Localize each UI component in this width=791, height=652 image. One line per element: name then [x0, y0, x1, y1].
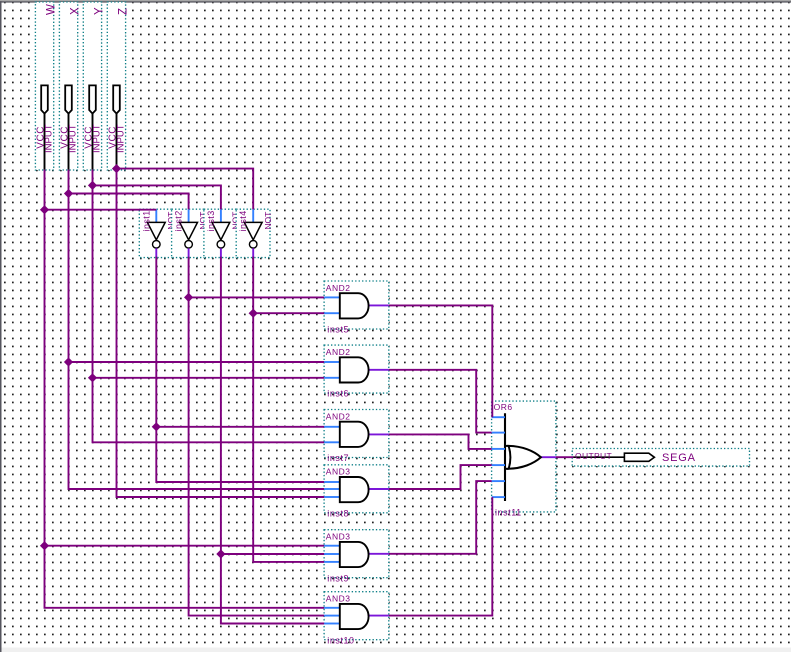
NOT inst2 output stub — [188, 248, 190, 257]
wire W' column: NOT inst1 output down to AND inst8 input 1 — [156, 257, 324, 482]
inst9 input stub 1 — [324, 545, 340, 547]
junction Y / NOT inst3 feed — [88, 181, 97, 190]
NOT inst1 triangle — [147, 222, 165, 239]
wire OR6 output to output pin SEGA — [556, 456, 574, 458]
junction Z / NOT inst4 feed — [112, 164, 121, 173]
inst9 body — [340, 542, 369, 567]
inst5 body — [340, 293, 369, 318]
wire AND inst6 output to OR6 input 2 — [389, 370, 492, 433]
inst8 input stub 2 — [324, 488, 340, 490]
svg-text:INPUT: INPUT — [67, 124, 78, 153]
junction Z' / AND inst5 in2 — [249, 309, 258, 318]
wire Z column: pin Z down to AND inst8 input 3 — [117, 169, 325, 497]
OR6 input bar — [504, 413, 506, 501]
junction X / NOT inst2 feed — [64, 189, 73, 198]
output pin SEGA (symbol cell) — [572, 449, 749, 467]
svg-text:AND3: AND3 — [326, 594, 351, 604]
wire W column: pin W down to AND inst10 input 1 — [45, 170, 325, 608]
svg-text:inst9: inst9 — [327, 573, 349, 583]
svg-text:AND3: AND3 — [326, 532, 351, 542]
NOT gate inst2 (inst2) — [172, 209, 209, 257]
wire W to NOT inst1 input — [45, 209, 157, 211]
inst10 input stub 1 — [324, 607, 340, 609]
junction Y / AND inst6 in2 — [88, 373, 97, 382]
inst6 output stub — [368, 369, 389, 371]
wire X' column: NOT inst2 output down to AND inst10 input 2 — [189, 257, 325, 616]
wire AND inst5 output to OR6 input 1 — [389, 305, 493, 417]
OR6 input stub 3 — [492, 448, 505, 450]
NOT inst2 triangle — [180, 222, 198, 239]
input pin X (symbol cell) — [59, 2, 77, 170]
output pin arrow symbol — [624, 453, 654, 461]
svg-text:INPUT: INPUT — [115, 124, 126, 153]
NOT inst3 triangle — [212, 222, 230, 239]
OR6 body top nub — [504, 445, 508, 447]
inst5 output stub — [368, 304, 389, 306]
NOT inst4 bubble — [249, 241, 257, 249]
svg-text:SEGA: SEGA — [662, 452, 696, 464]
wire AND inst8 output to OR6 input 4 — [389, 465, 492, 489]
inst8 input stub 3 — [324, 496, 340, 498]
NOT gate inst4 (inst4) — [236, 209, 273, 257]
NOT inst3 output stub — [220, 248, 222, 257]
inst6 input stub 2 — [324, 377, 340, 379]
window top border — [0, 0, 791, 1]
svg-text:AND2: AND2 — [326, 283, 351, 293]
junction W / AND inst9 in1 — [40, 541, 49, 550]
wire Z' branch to AND inst5 input 2 — [253, 312, 324, 314]
inst10 body — [340, 604, 369, 629]
svg-text:inst3: inst3 — [206, 210, 216, 231]
svg-text:inst7: inst7 — [327, 453, 349, 463]
wire W branch to AND inst9 input 1 — [45, 545, 325, 547]
NOT gate inst3 (inst3) — [204, 209, 241, 257]
input pin Z (symbol cell) — [107, 2, 125, 170]
inst7 body — [340, 422, 369, 447]
OR gate OR6 (inst11) — [492, 401, 556, 517]
svg-text:OR6: OR6 — [494, 402, 513, 412]
NOT inst4 output stub — [252, 248, 254, 257]
junction Y' / AND inst9 in2 — [216, 549, 225, 558]
wire X column: pin X down to AND inst8 input 2 — [69, 170, 325, 489]
AND gate AND2 (inst6) — [324, 345, 389, 399]
inst9 input stub 3 — [324, 561, 340, 563]
inst7 output stub — [368, 433, 389, 435]
NOT inst3 input stub — [220, 209, 222, 222]
svg-text:NOT: NOT — [263, 212, 273, 230]
inst8 output stub — [368, 488, 389, 490]
svg-text:AND2: AND2 — [326, 347, 351, 357]
svg-text:inst4: inst4 — [238, 210, 248, 231]
inst7 input stub 1 — [324, 426, 340, 428]
wire AND inst9 output to OR6 input 5 — [389, 481, 492, 554]
AND gate AND2 (inst7) — [324, 410, 389, 464]
inst10 input stub 2 — [324, 615, 340, 617]
junction W' / AND inst7 in1 — [152, 422, 161, 431]
svg-text:Z: Z — [117, 8, 129, 15]
junction X / AND inst6 in1 — [64, 357, 73, 366]
bottom scrollbar strip — [2, 648, 791, 652]
svg-text:INPUT: INPUT — [43, 124, 54, 153]
inst7 input stub 2 — [324, 441, 340, 443]
svg-text:inst2: inst2 — [174, 210, 184, 231]
inst5 input stub 1 — [324, 296, 340, 298]
OR6 body — [509, 446, 541, 469]
svg-text:INPUT: INPUT — [91, 124, 102, 153]
wire Y to NOT inst3 input — [93, 185, 221, 209]
wire Y' column: NOT inst3 output down to AND inst10 input 3 — [221, 257, 324, 624]
OR6 output stub — [541, 456, 556, 458]
NOT gate inst1 (inst1) — [139, 209, 176, 257]
svg-text:inst8: inst8 — [327, 508, 349, 518]
inst6 body — [340, 357, 369, 382]
window left border — [0, 1, 2, 652]
junction X' / AND inst5 in1 — [184, 293, 193, 302]
wire X to NOT inst2 input — [69, 194, 189, 210]
wire X branch to AND inst6 input 1 — [69, 361, 325, 363]
junction W / NOT inst1 feed — [40, 205, 49, 214]
svg-text:W: W — [45, 4, 57, 15]
NOT inst1 output stub — [155, 248, 157, 257]
inst8 body — [340, 477, 369, 502]
wire W' branch to AND inst7 input 1 — [156, 426, 324, 428]
NOT inst3 bubble — [217, 241, 225, 249]
svg-text:AND3: AND3 — [326, 467, 351, 477]
NOT inst1 input stub — [155, 209, 157, 222]
wire Z to NOT inst4 input — [117, 169, 254, 210]
svg-text:inst6: inst6 — [327, 389, 349, 399]
wire Y' branch to AND inst9 input 2 — [221, 553, 324, 555]
wire AND inst7 output to OR6 input 3 — [389, 434, 492, 449]
inst8 input stub 1 — [324, 481, 340, 483]
NOT inst2 bubble — [185, 241, 193, 249]
svg-text:inst11: inst11 — [495, 507, 522, 517]
wire AND inst10 output to OR6 input 6 — [389, 497, 493, 615]
inst9 output stub — [368, 553, 389, 555]
OR6 input stub 2 — [492, 432, 505, 434]
OR6 input stub 4 — [492, 464, 505, 466]
inst9 input stub 2 — [324, 553, 340, 555]
NOT inst4 input stub — [252, 209, 254, 222]
OR6 input stub 1 — [492, 416, 505, 418]
wire Y branch to AND inst6 input 2 — [93, 377, 325, 379]
input pin W (symbol cell) — [35, 2, 53, 170]
inst10 output stub — [368, 615, 389, 617]
svg-text:inst10: inst10 — [327, 635, 354, 645]
NOT inst2 input stub — [188, 209, 190, 222]
AND gate AND3 (inst10) — [324, 592, 389, 646]
svg-text:AND2: AND2 — [326, 411, 351, 421]
inst10 input stub 3 — [324, 623, 340, 625]
wire Z' column: NOT inst4 output down to AND inst9 input 3 — [253, 257, 324, 562]
AND gate AND3 (inst9) — [324, 530, 389, 584]
AND gate AND3 (inst8) — [324, 465, 389, 519]
NOT inst1 bubble — [153, 241, 161, 249]
svg-text:Y: Y — [93, 7, 105, 15]
OR6 input stub 6 — [492, 496, 505, 498]
output pin lead — [573, 456, 624, 458]
OR6 body bottom nub — [504, 468, 508, 470]
svg-text:OUTPUT: OUTPUT — [575, 451, 612, 461]
wire Y column: pin Y down to AND inst7 input 2 — [93, 170, 325, 443]
svg-text:inst5: inst5 — [327, 325, 349, 335]
inst5 input stub 2 — [324, 312, 340, 314]
AND gate AND2 (inst5) — [324, 281, 389, 335]
inst6 input stub 1 — [324, 361, 340, 363]
svg-text:X: X — [69, 7, 81, 15]
NOT inst4 triangle — [244, 222, 262, 239]
OR6 input stub 5 — [492, 480, 505, 482]
input pin Y (symbol cell) — [83, 2, 101, 170]
svg-text:inst1: inst1 — [141, 210, 151, 231]
wire X' branch to AND inst5 input 1 — [189, 296, 325, 298]
